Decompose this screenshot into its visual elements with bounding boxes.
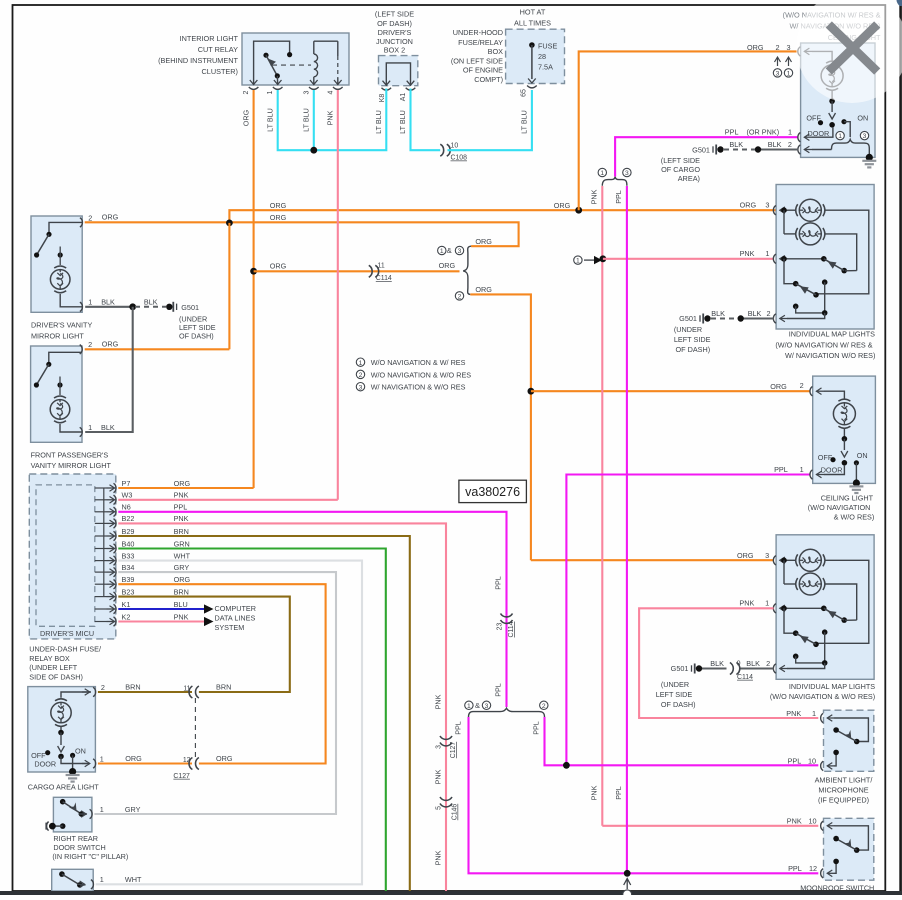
svg-text:AREA): AREA) <box>678 174 700 183</box>
diagram id tag va380276 <box>459 480 527 502</box>
svg-text:OF ENGINE: OF ENGINE <box>463 66 503 75</box>
svg-text:(W/O NAVIGATION W/ RES &: (W/O NAVIGATION W/ RES & <box>775 340 872 349</box>
MICU pin B34 <box>95 571 107 573</box>
MICU outer dashed box under-dash fuse relay box <box>29 474 116 639</box>
svg-text:ORG: ORG <box>270 213 287 222</box>
cargo door contact to pin1 <box>61 756 87 763</box>
wire BRN cargo to C127 <box>98 691 192 693</box>
svg-text:B22: B22 <box>122 514 135 523</box>
map lights 2 lamp wiring right rail <box>817 560 869 643</box>
vanity1 internal switch <box>49 222 82 233</box>
option circle 2 bottom brace <box>540 701 548 709</box>
ceiling1 pin 2 <box>798 145 801 154</box>
svg-text:MIRROR LIGHT: MIRROR LIGHT <box>31 331 84 340</box>
svg-text:1: 1 <box>765 249 769 258</box>
svg-text:PNK: PNK <box>174 612 189 621</box>
svg-text:BRN: BRN <box>216 683 231 692</box>
svg-text:PPL: PPL <box>454 721 463 735</box>
MICU internal pin bus <box>103 488 105 597</box>
svg-text:(LEFT SIDE: (LEFT SIDE <box>375 10 414 19</box>
close button X icon <box>829 25 877 72</box>
svg-text:FUSE/RELAY: FUSE/RELAY <box>458 38 503 47</box>
case ground ceiling2 <box>849 485 863 487</box>
svg-text:N6: N6 <box>122 503 131 512</box>
svg-text:OF CARGO: OF CARGO <box>661 165 700 174</box>
MICU pin B33 <box>95 560 107 562</box>
svg-text:DOOR: DOOR <box>821 466 843 475</box>
wire BRN B23 to cargo light <box>118 597 289 692</box>
svg-text:10: 10 <box>808 757 816 766</box>
vanity1 pin 1 <box>80 302 83 311</box>
svg-text:W/O NAVIGATION & W/O RES: W/O NAVIGATION & W/O RES <box>371 370 472 379</box>
svg-text:BLK: BLK <box>729 140 743 149</box>
relay pin 4 <box>334 80 342 85</box>
svg-text:2: 2 <box>101 683 105 692</box>
wire PPL ceiling2 pin1 riser <box>566 475 810 766</box>
MICU pin W3 <box>95 499 107 501</box>
map lights 1 pin 2 <box>773 314 776 323</box>
wire PNK relay pin4 riser <box>337 90 339 500</box>
case ground cargo <box>66 774 80 776</box>
svg-text:ORG: ORG <box>770 382 787 391</box>
ceiling1 pin bracket top <box>798 47 801 56</box>
svg-text:B29: B29 <box>122 527 135 536</box>
svg-text:ORG: ORG <box>554 201 571 210</box>
wire BLK vanity1 to G501 <box>85 306 133 308</box>
svg-text:1: 1 <box>359 360 363 367</box>
map lights 1 pin 1 <box>773 254 776 263</box>
wire LT BLU C108 to fuse 65 <box>448 90 532 150</box>
svg-text:65: 65 <box>521 89 528 97</box>
svg-text:PPL: PPL <box>788 757 802 766</box>
ceiling2 pin1 internal to door <box>824 465 844 475</box>
connector C127 pin 3 <box>440 736 452 746</box>
svg-text:& W/O RES): & W/O RES) <box>834 513 875 522</box>
map lights 2 pin 1 <box>773 604 776 613</box>
connector dashed link C127 <box>194 698 196 758</box>
map lights 2 lamp 1 <box>780 559 788 561</box>
svg-text:12: 12 <box>183 757 191 764</box>
svg-text:DRIVER'S: DRIVER'S <box>378 28 412 37</box>
relay pin 1 <box>274 80 282 85</box>
wire ORG bus2 vanity run <box>85 222 519 246</box>
cargo switch <box>60 727 62 733</box>
MICU pin K1 <box>95 608 107 610</box>
wire PPL option column <box>626 186 628 873</box>
svg-text:JUNCTION: JUNCTION <box>376 37 413 46</box>
bottom dark band <box>0 891 902 895</box>
option legend 2 <box>356 370 364 378</box>
svg-text:ORG: ORG <box>737 551 754 560</box>
wire GRY B34 to right rear door switch <box>94 572 336 814</box>
wire LT BLU relay pin1 to junction K8 <box>278 89 387 151</box>
svg-text:(UNDER: (UNDER <box>661 680 689 689</box>
svg-text:PNK: PNK <box>326 110 335 125</box>
wire BLK dashed to ground <box>135 306 166 308</box>
svg-text:LT BLU: LT BLU <box>266 108 275 132</box>
ceiling2 lamp <box>833 403 855 425</box>
svg-text:ON: ON <box>75 747 86 756</box>
svg-text:PPL: PPL <box>725 128 739 137</box>
svg-text:1: 1 <box>765 599 769 608</box>
ambient internal switch <box>827 717 835 719</box>
ceiling1 pin1 internal to door <box>812 127 833 137</box>
svg-text:PPL: PPL <box>614 190 623 204</box>
map lights 2 pin 3 <box>773 556 776 565</box>
svg-text:BOX 2: BOX 2 <box>384 46 406 55</box>
relay pin 2 <box>250 80 258 85</box>
svg-text:BLK: BLK <box>144 298 158 307</box>
wire BLK map1 solid <box>741 317 774 319</box>
ambient pin 1 <box>821 713 824 722</box>
junction dot ORG bus3 tap <box>250 268 257 275</box>
svg-text:3: 3 <box>786 43 790 52</box>
svg-text:CUT RELAY: CUT RELAY <box>198 45 238 54</box>
svg-text:1: 1 <box>838 133 842 140</box>
svg-text:1: 1 <box>88 423 92 432</box>
wire ORG to ceiling light 2 pin 2 <box>531 390 810 392</box>
svg-text:28: 28 <box>538 52 546 61</box>
arrow computer data lines K1 <box>204 604 214 613</box>
cargo pin2 internal <box>82 691 90 693</box>
svg-text:ON: ON <box>857 114 868 123</box>
svg-text:3: 3 <box>485 703 489 710</box>
partial option circle below moonroof arrow <box>623 890 632 899</box>
svg-text:HOT AT: HOT AT <box>520 8 546 17</box>
fuse 28 symbol <box>529 42 535 48</box>
svg-text:BRN: BRN <box>174 587 189 596</box>
map lights 1 lamp 2 <box>783 210 785 234</box>
option circle 1 pnk column <box>598 168 606 176</box>
svg-text:(ON LEFT SIDE: (ON LEFT SIDE <box>451 56 503 65</box>
svg-text:PNK: PNK <box>434 850 443 865</box>
svg-text:INDIVIDUAL MAP LIGHTS: INDIVIDUAL MAP LIGHTS <box>789 330 875 339</box>
ceiling light 1 box <box>801 43 875 157</box>
wire BLK ceiling1 pin2 to G501 <box>758 148 798 150</box>
svg-text:INTERIOR LIGHT: INTERIOR LIGHT <box>180 34 239 43</box>
svg-text:B23: B23 <box>122 587 135 596</box>
svg-text:C114: C114 <box>508 621 515 637</box>
ceiling2 switch <box>843 428 845 439</box>
connector C127 pin 11 <box>189 686 199 698</box>
svg-text:VANITY MIRROR LIGHT: VANITY MIRROR LIGHT <box>31 461 112 470</box>
svg-text:DOOR: DOOR <box>34 760 56 769</box>
svg-text:7.5A: 7.5A <box>538 63 553 72</box>
svg-text:OF DASH): OF DASH) <box>377 19 412 28</box>
map lights 2 pin 2 <box>773 664 776 673</box>
svg-text:10: 10 <box>808 817 816 826</box>
ground G501 under dash <box>166 304 172 310</box>
moonroof pin 10 <box>821 821 824 830</box>
wire BLU K1 computer data line <box>118 608 204 610</box>
relay pin 3 <box>310 80 318 85</box>
cargo lamp <box>51 702 71 722</box>
door switch pin 1 <box>90 809 93 818</box>
ceiling1 option ground brace <box>832 139 870 149</box>
svg-text:1: 1 <box>267 90 274 94</box>
svg-text:WHT: WHT <box>125 875 142 884</box>
svg-text:LT BLU: LT BLU <box>374 110 383 134</box>
svg-text:2: 2 <box>88 340 92 349</box>
connector C114 pin 11 <box>369 265 379 277</box>
svg-text:DRIVER'S VANITY: DRIVER'S VANITY <box>31 321 92 330</box>
map lights 1 lamp wiring right rail <box>817 210 869 294</box>
wire ORG bus3 to C114 <box>254 270 460 272</box>
wire PPL N6 to C114 riser <box>118 512 506 707</box>
svg-text:PNK: PNK <box>787 817 802 826</box>
svg-text:K8: K8 <box>379 94 386 103</box>
wire ORG riser to ceiling light 1 <box>579 51 798 210</box>
svg-text:2: 2 <box>88 213 92 222</box>
svg-text:PNK: PNK <box>174 491 189 500</box>
svg-text:ORG: ORG <box>102 340 119 349</box>
relay: interior light cut relay box <box>242 33 349 85</box>
junction dot LT BLU pin3 <box>313 90 315 150</box>
wire ORG riser to passenger vanity <box>228 223 230 349</box>
svg-text:G501: G501 <box>671 664 689 673</box>
svg-text:11: 11 <box>378 262 385 269</box>
MICU pin B39 <box>95 583 107 585</box>
option label 2 <box>455 292 463 300</box>
svg-text:(IF EQUIPPED): (IF EQUIPPED) <box>818 796 869 805</box>
svg-text:LEFT SIDE: LEFT SIDE <box>179 323 216 332</box>
map lights 1 box <box>776 185 874 330</box>
svg-text:BOX: BOX <box>488 47 504 56</box>
svg-text:va380276: va380276 <box>465 485 520 499</box>
svg-text:1: 1 <box>812 709 816 718</box>
MICU pin P7 <box>95 487 107 489</box>
bottom switch box partial <box>52 869 93 891</box>
wire PNK K2 computer data line <box>118 620 204 622</box>
map lights 2 switch 1 <box>780 607 788 609</box>
MICU pin B22 <box>95 522 107 524</box>
svg-text:(UNDER: (UNDER <box>179 314 207 323</box>
svg-text:BRN: BRN <box>125 683 140 692</box>
junction box pin K8 <box>383 81 391 86</box>
ceiling1 lamp <box>821 65 843 87</box>
passenger vanity mirror light box <box>31 346 82 442</box>
svg-text:11: 11 <box>183 685 190 692</box>
junction dot ORG bus1 riser to ceiling light 1 <box>575 207 582 214</box>
MICU pin B40 <box>95 548 107 550</box>
svg-text:3: 3 <box>359 384 363 391</box>
svg-text:OF DASH): OF DASH) <box>661 700 696 709</box>
svg-text:2: 2 <box>766 659 770 668</box>
svg-text:ORG: ORG <box>439 261 456 270</box>
svg-text:A1: A1 <box>400 93 407 102</box>
svg-text:GRY: GRY <box>174 563 190 572</box>
svg-text:LEFT SIDE: LEFT SIDE <box>674 335 711 344</box>
option legend 1 <box>356 358 364 366</box>
cargo pin 2 <box>93 687 96 696</box>
vanity2 internal switch <box>49 352 82 363</box>
vanity1 pin 2 <box>80 218 83 227</box>
cargo internal top feed <box>61 692 91 698</box>
svg-text:C108: C108 <box>451 155 468 162</box>
ceiling light 2 box <box>813 376 876 483</box>
map lights 1 lamp 1 <box>780 209 788 211</box>
svg-text:2: 2 <box>243 90 250 94</box>
map lights 2 box <box>776 535 874 680</box>
svg-text:BLK: BLK <box>746 659 760 668</box>
wire PNK W3 to relay pin4 riser <box>118 499 337 501</box>
svg-text:ORG: ORG <box>102 213 119 222</box>
svg-text:PNK: PNK <box>434 769 443 784</box>
cargo pin 1 <box>93 759 96 768</box>
wire PPL option2 to ambient row <box>545 717 819 765</box>
wire PNK B22 riser down off page <box>118 523 446 891</box>
svg-text:PNK: PNK <box>740 249 755 258</box>
wire ORG P7 to relay riser <box>118 487 253 489</box>
svg-text:1: 1 <box>800 465 804 474</box>
svg-text:1: 1 <box>100 875 104 884</box>
junction box: driver junction box 2 <box>379 56 418 86</box>
svg-text:2: 2 <box>788 140 792 149</box>
wire ORG branch 2 to ceiling light 2 and map lights 2 <box>470 294 531 560</box>
svg-text:BLU: BLU <box>174 600 188 609</box>
wire BLK dashed ceiling1 <box>724 149 755 151</box>
svg-text:UNDER-HOOD: UNDER-HOOD <box>453 28 503 37</box>
option legend 3 <box>356 383 364 391</box>
wire BLK down to passenger vanity <box>85 307 133 432</box>
right panel edge line <box>899 2 902 895</box>
svg-text:4: 4 <box>327 90 334 94</box>
svg-text:PPL: PPL <box>788 864 802 873</box>
wire PNK map2 pin1 to ambient <box>639 608 818 718</box>
svg-text:PPL: PPL <box>614 786 623 800</box>
svg-text:GRN: GRN <box>174 539 190 548</box>
svg-text:GRY: GRY <box>125 805 141 814</box>
svg-text:PPL: PPL <box>174 503 188 512</box>
svg-text:P7: P7 <box>122 479 131 488</box>
ceiling1 brace to case ground <box>868 149 870 158</box>
wire PPL ceiling1 pin1 to option brace <box>615 137 798 176</box>
ground G501 cargo area <box>717 146 723 152</box>
svg-text:3: 3 <box>303 90 310 94</box>
svg-text:OF DASH): OF DASH) <box>676 345 711 354</box>
svg-text:SIDE OF DASH): SIDE OF DASH) <box>29 672 83 681</box>
svg-text:3: 3 <box>435 745 442 749</box>
svg-text:(UNDER LEFT: (UNDER LEFT <box>29 663 78 672</box>
vanity1 lamp <box>58 252 63 257</box>
svg-text:SYSTEM: SYSTEM <box>215 623 245 632</box>
svg-text:3: 3 <box>863 133 867 140</box>
svg-text:ORG: ORG <box>125 754 142 763</box>
svg-text:ON: ON <box>857 451 868 460</box>
svg-text:OFF: OFF <box>31 751 46 760</box>
svg-text:10: 10 <box>451 143 459 150</box>
vanity2 lamp <box>57 382 62 387</box>
svg-text:1: 1 <box>600 170 604 177</box>
MICU inner dashed box <box>36 485 95 626</box>
svg-text:(OR PNK): (OR PNK) <box>747 128 780 137</box>
svg-text:&: & <box>447 246 452 255</box>
svg-text:ORG: ORG <box>740 200 757 209</box>
junction dot ORG vanity riser <box>226 220 233 227</box>
bottom switch pin 1 <box>91 880 94 889</box>
svg-text:G501: G501 <box>181 303 199 312</box>
wire ORG relay pin2 down to MICU P7 riser <box>253 90 255 488</box>
svg-text:2: 2 <box>542 703 546 710</box>
svg-text:1: 1 <box>88 298 92 307</box>
map lights 2 pin2 wiring <box>822 629 828 635</box>
wire ORG passenger vanity pin2 <box>85 348 230 350</box>
svg-text:(W/O NAVIGATION & W/O RES): (W/O NAVIGATION & W/O RES) <box>770 692 875 701</box>
svg-text:ORG: ORG <box>174 575 191 584</box>
connector C127 pin 12 <box>189 758 199 770</box>
connector C114 pin 23 <box>501 614 513 624</box>
arrow computer data lines K2 <box>204 617 214 626</box>
wire BRN B29 riser down off page <box>118 536 410 891</box>
svg-text:PNK: PNK <box>590 785 599 800</box>
ceiling1 switch <box>831 90 833 101</box>
svg-text:ORG: ORG <box>270 201 287 210</box>
svg-text:BLK: BLK <box>768 140 782 149</box>
svg-text:2: 2 <box>458 294 462 301</box>
ceiling2 on to case ground <box>855 463 857 484</box>
svg-text:CEILING LIGHT: CEILING LIGHT <box>821 493 874 502</box>
wire WHT B33 to bottom switch <box>96 561 362 885</box>
wire PPL N6 option brace bottom <box>469 708 545 717</box>
svg-text:(IN RIGHT "C" PILLAR): (IN RIGHT "C" PILLAR) <box>52 852 128 861</box>
svg-text:FUSE: FUSE <box>538 42 558 51</box>
map lights 1 switch 1 <box>780 258 788 260</box>
junction dot ORG branch to ceiling light 2 <box>528 388 535 395</box>
svg-text:C114: C114 <box>376 275 392 282</box>
map lights 1 switch 2 <box>784 259 796 284</box>
svg-text:1: 1 <box>576 258 580 265</box>
option labels 1 and 3 <box>438 246 446 254</box>
svg-text:ORG: ORG <box>747 43 764 52</box>
svg-text:AMBIENT LIGHT/: AMBIENT LIGHT/ <box>815 776 874 785</box>
svg-text:INDIVIDUAL MAP LIGHTS: INDIVIDUAL MAP LIGHTS <box>789 682 875 691</box>
svg-text:UNDER-DASH FUSE/: UNDER-DASH FUSE/ <box>29 645 102 654</box>
svg-text:BLK: BLK <box>748 309 762 318</box>
svg-text:&: & <box>475 701 480 710</box>
svg-text:ORG: ORG <box>174 479 191 488</box>
svg-text:COMPUTER: COMPUTER <box>215 604 257 613</box>
MICU pin N6 <box>95 511 107 513</box>
svg-text:BLK: BLK <box>101 298 115 307</box>
svg-text:(LEFT SIDE: (LEFT SIDE <box>661 156 700 165</box>
svg-text:5: 5 <box>435 806 442 810</box>
junction box pin A1 <box>407 81 415 86</box>
MICU pin K2 <box>95 621 107 623</box>
svg-text:DATA LINES: DATA LINES <box>215 614 256 623</box>
ceiling1 on dot to ground brace <box>844 122 850 137</box>
svg-text:ORG: ORG <box>216 754 233 763</box>
right rear door switch box <box>53 797 92 832</box>
bottom switch blade <box>59 871 65 877</box>
ambient pin 10 internal <box>827 765 835 767</box>
svg-text:ORG: ORG <box>242 109 251 126</box>
map lights 1 pin2 wiring <box>822 279 828 285</box>
junction dot PNK map1 pin 1 tap <box>600 255 607 262</box>
svg-text:LT BLU: LT BLU <box>398 110 407 134</box>
svg-text:B33: B33 <box>122 551 135 560</box>
svg-text:3: 3 <box>776 71 780 78</box>
connector C108 pin 10 <box>440 144 450 156</box>
wire ORG B39 to cargo light <box>118 584 325 763</box>
svg-text:2: 2 <box>775 43 779 52</box>
svg-text:DOOR SWITCH: DOOR SWITCH <box>53 843 105 852</box>
wire PNK to map lights 1 pin 1 <box>603 258 774 260</box>
fuse box: under-hood fuse/relay box <box>506 29 565 83</box>
map lights 2 lamp 2 <box>783 560 785 584</box>
svg-text:ORG: ORG <box>270 261 287 270</box>
relay internal contacts and coil <box>254 41 290 85</box>
moonroof internal switch <box>827 825 835 827</box>
